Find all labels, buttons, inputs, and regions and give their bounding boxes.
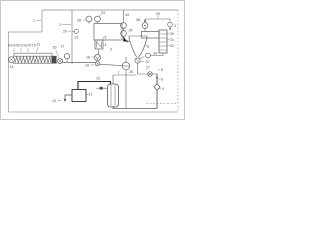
wire pump 26 up to cone xyxy=(125,57,127,62)
svg-text:1: 1 xyxy=(33,19,35,23)
arrow to circle 25 xyxy=(139,57,145,60)
svg-text:24: 24 xyxy=(145,60,149,64)
wire blower to duct xyxy=(144,28,146,31)
plant boundary left step xyxy=(9,32,43,112)
outer image frame xyxy=(1,1,185,120)
svg-text:33: 33 xyxy=(101,11,105,15)
side circles 35 xyxy=(121,31,127,37)
pump circle 26 xyxy=(122,62,130,70)
svg-text:34: 34 xyxy=(125,13,129,17)
gauge 20 on line xyxy=(74,29,78,33)
svg-text:2: 2 xyxy=(59,23,61,27)
svg-text:26: 26 xyxy=(129,70,133,74)
extruder screw flights xyxy=(15,57,51,63)
wire pump 26 down xyxy=(125,70,127,109)
plant boundary right side (dashed) xyxy=(177,10,179,112)
wire vertical from top boundary xyxy=(71,10,73,64)
svg-text:3: 3 xyxy=(110,48,112,52)
wire mixer down xyxy=(98,50,100,55)
svg-text:17: 17 xyxy=(61,45,65,49)
pump circle 18 xyxy=(95,55,101,61)
svg-text:11: 11 xyxy=(37,43,41,47)
extruder drive circle xyxy=(9,57,15,63)
svg-text:4: 4 xyxy=(105,43,107,47)
plant boundary bottom xyxy=(9,111,179,113)
cylinder top line xyxy=(113,75,137,84)
wire valve line to right xyxy=(138,63,158,74)
blower circle 36 xyxy=(142,23,148,29)
svg-text:19: 19 xyxy=(85,64,89,68)
svg-text:6: 6 xyxy=(161,78,163,82)
svg-text:INGREDIENTS: INGREDIENTS xyxy=(8,44,37,48)
top right bracket 39 xyxy=(145,19,170,22)
extruder 15 trough xyxy=(13,56,57,63)
outlet 13 xyxy=(65,95,72,100)
trap component on return line xyxy=(154,84,160,90)
inlet valve at cylinder xyxy=(100,87,103,90)
svg-text:14: 14 xyxy=(10,65,14,69)
discharge valve circle xyxy=(58,59,63,64)
svg-text:13: 13 xyxy=(52,99,56,103)
svg-text:5: 5 xyxy=(105,36,107,40)
svg-text:38: 38 xyxy=(136,18,140,22)
right small valve 41 xyxy=(168,22,173,27)
svg-text:30: 30 xyxy=(170,32,174,36)
wire to pump 26 xyxy=(100,64,122,65)
extruder discharge block xyxy=(52,56,57,63)
svg-text:34: 34 xyxy=(153,52,157,56)
mixer vessel 27 xyxy=(94,24,122,41)
svg-text:16: 16 xyxy=(53,46,57,50)
inner dashed line bottom right xyxy=(146,103,178,105)
motor circle 28 xyxy=(86,16,92,22)
wire vessel side feed xyxy=(123,10,125,23)
bottom return pipe xyxy=(113,106,157,109)
valve circle 19 xyxy=(95,61,100,66)
wire main melt line xyxy=(63,61,97,64)
svg-text:10: 10 xyxy=(96,77,100,81)
cyclone cone 9 xyxy=(129,36,147,57)
hopper bracket xyxy=(14,53,52,56)
svg-text:4: 4 xyxy=(174,24,176,28)
box 12 xyxy=(72,90,86,102)
motor circle 33 xyxy=(95,16,101,22)
vertical return line xyxy=(156,74,158,109)
svg-text:18: 18 xyxy=(86,56,90,60)
svg-text:20: 20 xyxy=(63,30,67,34)
small circle 25 xyxy=(146,53,151,58)
plant boundary line 1 xyxy=(42,10,178,32)
filter cylinder 7 xyxy=(108,84,119,107)
ingredient feed ticks xyxy=(14,48,28,52)
svg-text:28: 28 xyxy=(77,19,81,23)
wire circle to column xyxy=(150,54,163,56)
svg-text:4: 4 xyxy=(162,87,164,91)
gauge circle 17 xyxy=(64,54,69,59)
svg-text:35: 35 xyxy=(129,29,133,33)
thick product pipe 10 xyxy=(78,82,111,90)
duct box xyxy=(142,32,160,39)
svg-text:12: 12 xyxy=(89,93,93,97)
valve on line xyxy=(148,72,153,77)
static mixer box 5 xyxy=(95,40,103,49)
svg-text:31: 31 xyxy=(170,38,174,42)
svg-text:39: 39 xyxy=(156,12,160,16)
feed arrow from 11 xyxy=(37,47,39,52)
svg-text:32: 32 xyxy=(170,44,174,48)
svg-text:8: 8 xyxy=(161,68,163,72)
rotary valve circle at cone tip xyxy=(135,58,140,63)
svg-text:27: 27 xyxy=(146,66,150,70)
svg-text:9: 9 xyxy=(147,45,149,49)
svg-text:21: 21 xyxy=(75,36,79,40)
side circles 34 xyxy=(121,23,127,29)
svg-text:7: 7 xyxy=(118,71,120,75)
column 29 xyxy=(159,30,167,53)
